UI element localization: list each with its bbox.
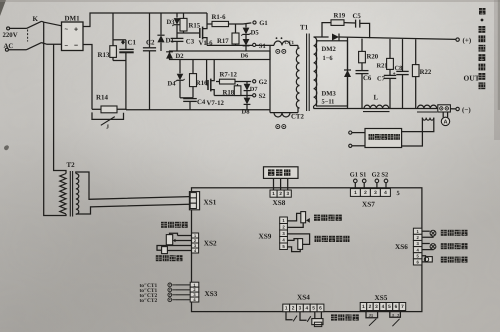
svg-text:R13: R13: [98, 51, 111, 59]
thermal protector 热保护器: [422, 256, 426, 262]
wire down to T2 primary (left): [44, 22, 66, 215]
XS4 jumper hooks: [286, 312, 293, 320]
svg-text:D5: D5: [251, 29, 260, 36]
leg R20/C6: [361, 39, 363, 52]
zener D5: [245, 24, 247, 27]
capacitor C1 electrolytic: [121, 40, 125, 45]
svg-text:R17: R17: [217, 38, 229, 45]
svg-text:2: 2: [292, 306, 295, 312]
svg-text:G1: G1: [259, 20, 267, 27]
svg-text:4: 4: [384, 190, 387, 196]
svg-text:J: J: [106, 125, 109, 131]
svg-text:1: 1: [285, 306, 288, 312]
rectifier block DM2/DM3: [317, 41, 348, 106]
svg-text:DM1: DM1: [65, 14, 81, 22]
svg-text:G2: G2: [259, 79, 268, 86]
output terminal -: [450, 108, 456, 110]
power lamp 电源指示: [422, 230, 430, 232]
svg-text:6: 6: [319, 306, 322, 312]
connector XS8: [272, 178, 274, 190]
svg-text:XS4: XS4: [297, 294, 310, 302]
diode D8: [246, 91, 248, 98]
relay contact J bypass: [92, 112, 124, 119]
CT1 winding terminals: [276, 49, 280, 53]
svg-text:(+): (+): [463, 37, 472, 45]
svg-text:2: 2: [364, 190, 367, 196]
photo corner shadow: [0, 0, 6, 16]
wire switch to DM1: [42, 21, 62, 26]
svg-text:V7-12: V7-12: [207, 100, 225, 107]
slow start board 缓起板: [263, 167, 298, 179]
svg-text:XS3: XS3: [204, 290, 217, 298]
wire down to T2 primary (right): [54, 44, 66, 173]
gate node wire: [177, 32, 199, 34]
diode D6: [245, 35, 247, 39]
svg-text:3: 3: [299, 306, 302, 312]
terminal G1: [253, 21, 256, 24]
svg-text:C6: C6: [363, 75, 372, 82]
svg-text:T1: T1: [300, 24, 309, 32]
svg-text:S2: S2: [381, 171, 388, 178]
svg-text:C3: C3: [186, 39, 195, 46]
svg-text:R7-12: R7-12: [220, 72, 238, 79]
svg-text:XS1: XS1: [203, 198, 216, 206]
leg R22: [415, 39, 417, 64]
output CT sensor box: [438, 105, 451, 112]
terminal G2: [253, 80, 256, 83]
current transformer CT2: [270, 112, 298, 114]
svg-text:R18: R18: [223, 89, 235, 96]
lower rail: [126, 109, 270, 111]
svg-text:5−11: 5−11: [322, 99, 335, 106]
XS5 J1 jumper: [366, 311, 378, 318]
svg-text:XS9: XS9: [258, 233, 271, 241]
svg-text:D2: D2: [176, 53, 185, 60]
svg-text:S1: S1: [259, 43, 266, 50]
pulse freq pot 脉冲频率: [287, 213, 300, 221]
svg-text:D8: D8: [242, 108, 251, 115]
svg-text:XS2: XS2: [204, 239, 217, 247]
svg-text:C7: C7: [377, 75, 386, 82]
svg-text:R15: R15: [189, 22, 201, 29]
AC input terminals 220V: [7, 27, 10, 30]
svg-text:XS6: XS6: [395, 243, 408, 251]
terminal S2: [253, 94, 256, 97]
HF arc starter box: [365, 129, 402, 148]
svg-text:G2: G2: [372, 171, 380, 178]
svg-text:R22: R22: [420, 69, 432, 76]
svg-text:(−): (−): [462, 106, 471, 114]
svg-text:R20: R20: [367, 54, 379, 61]
svg-text:5: 5: [396, 190, 399, 197]
svg-text:~: ~: [65, 27, 69, 33]
source wire to S2: [214, 94, 252, 96]
resistor R13: [112, 13, 114, 46]
svg-text:S1: S1: [360, 171, 367, 178]
wire DM1 - output down: [83, 44, 92, 104]
svg-text:6: 6: [395, 304, 398, 310]
svg-text:to″CT2: to″CT2: [139, 298, 157, 304]
diode D7: [246, 81, 248, 83]
terminal S1: [253, 43, 256, 46]
svg-text:R1-6: R1-6: [212, 14, 227, 21]
svg-text:XS8: XS8: [272, 199, 285, 207]
svg-text:3: 3: [374, 190, 377, 196]
svg-text:4: 4: [382, 304, 385, 310]
source rail wire to S1: [207, 44, 253, 46]
svg-text:+: +: [74, 26, 78, 33]
svg-text:AC: AC: [4, 43, 14, 50]
svg-text:~: ~: [65, 43, 69, 49]
svg-text:C5: C5: [353, 13, 362, 20]
svg-text:5: 5: [388, 304, 391, 310]
svg-text:1: 1: [362, 304, 365, 310]
connector XS7: [350, 189, 360, 197]
wire input bottom: [8, 49, 26, 51]
svg-text:C8: C8: [395, 65, 403, 72]
wire input top: [10, 27, 27, 29]
diode D2: [166, 52, 173, 59]
svg-text:C1: C1: [128, 38, 137, 46]
freewheel diode on block edge: [347, 38, 349, 70]
T1 primary bottom to CT2: [298, 108, 300, 113]
leg R21/C7: [389, 39, 391, 59]
svg-text:1: 1: [272, 191, 275, 196]
svg-text:+: +: [393, 72, 396, 77]
svg-text:DM2: DM2: [322, 46, 337, 53]
connector XS1: [189, 192, 199, 210]
svg-text:L: L: [374, 93, 379, 101]
svg-text:C4: C4: [197, 99, 206, 106]
secondary top wire with diode: [314, 36, 329, 38]
svg-text:C2: C2: [146, 38, 155, 46]
svg-text:R19: R19: [334, 13, 346, 20]
svg-text:K: K: [33, 15, 39, 23]
svg-text:XS7: XS7: [362, 200, 375, 208]
svg-text:5: 5: [312, 306, 315, 312]
svg-text:7: 7: [401, 304, 404, 310]
loop vertical: [269, 45, 271, 112]
svg-text:220V: 220V: [3, 32, 18, 39]
wire DM1 + output to top bus: [83, 13, 207, 27]
svg-text:2: 2: [279, 191, 282, 196]
small ink smudge left margin: [4, 145, 9, 150]
XS3 wires and CT labels: [176, 284, 190, 286]
svg-text:S2: S2: [259, 93, 267, 100]
svg-text:OUT: OUT: [464, 73, 480, 82]
connector XS6: [413, 228, 422, 234]
current transformer CT1: [256, 44, 274, 46]
svg-text:G1: G1: [350, 171, 358, 178]
connector XS2: [192, 233, 199, 238]
svg-text:3: 3: [375, 304, 378, 310]
output choke coil: [418, 105, 437, 108]
connector XS3: [190, 282, 199, 287]
output terminal +: [456, 38, 459, 41]
abnormal lamp 异常指示: [422, 243, 430, 245]
svg-text:T2: T2: [66, 161, 75, 169]
base adjust pot 基值调节: [162, 247, 168, 254]
svg-text:A: A: [443, 120, 447, 126]
svg-text:−: −: [74, 42, 78, 49]
duty cycle pot 脉冲占空比: [287, 234, 309, 245]
svg-text:1−6: 1−6: [323, 55, 334, 62]
wire to G1: [243, 23, 251, 24]
svg-text:J1: J1: [369, 313, 374, 318]
T2 secondary wires to XS1: [76, 172, 190, 199]
ammeter A: [442, 112, 444, 117]
svg-text:2: 2: [369, 304, 372, 310]
svg-text:D6: D6: [241, 53, 249, 60]
XS5 J2 jumper: [390, 311, 401, 318]
svg-text:R21: R21: [377, 63, 388, 70]
HF box input terminals: [349, 131, 352, 134]
svg-text:D4: D4: [168, 80, 177, 87]
svg-text:1: 1: [354, 190, 357, 196]
leg C8: [402, 39, 404, 71]
svg-text:3: 3: [286, 191, 289, 196]
svg-text:CT2: CT2: [291, 113, 304, 120]
gate drive bus bar: [170, 51, 271, 60]
current adjust pot 电流调节: [161, 222, 167, 228]
lower output bus: [313, 106, 315, 109]
svg-text:XS5: XS5: [374, 294, 387, 302]
svg-text:DM3: DM3: [322, 90, 337, 97]
svg-text:4: 4: [305, 306, 308, 312]
control board outline: [191, 188, 421, 312]
svg-text:D7: D7: [250, 86, 259, 93]
vertical margin caption 九、电原理接线图参考: [479, 8, 486, 15]
HF coupling winding: [422, 118, 433, 121]
connector XS9: [280, 217, 288, 224]
svg-text:R14: R14: [96, 93, 109, 101]
